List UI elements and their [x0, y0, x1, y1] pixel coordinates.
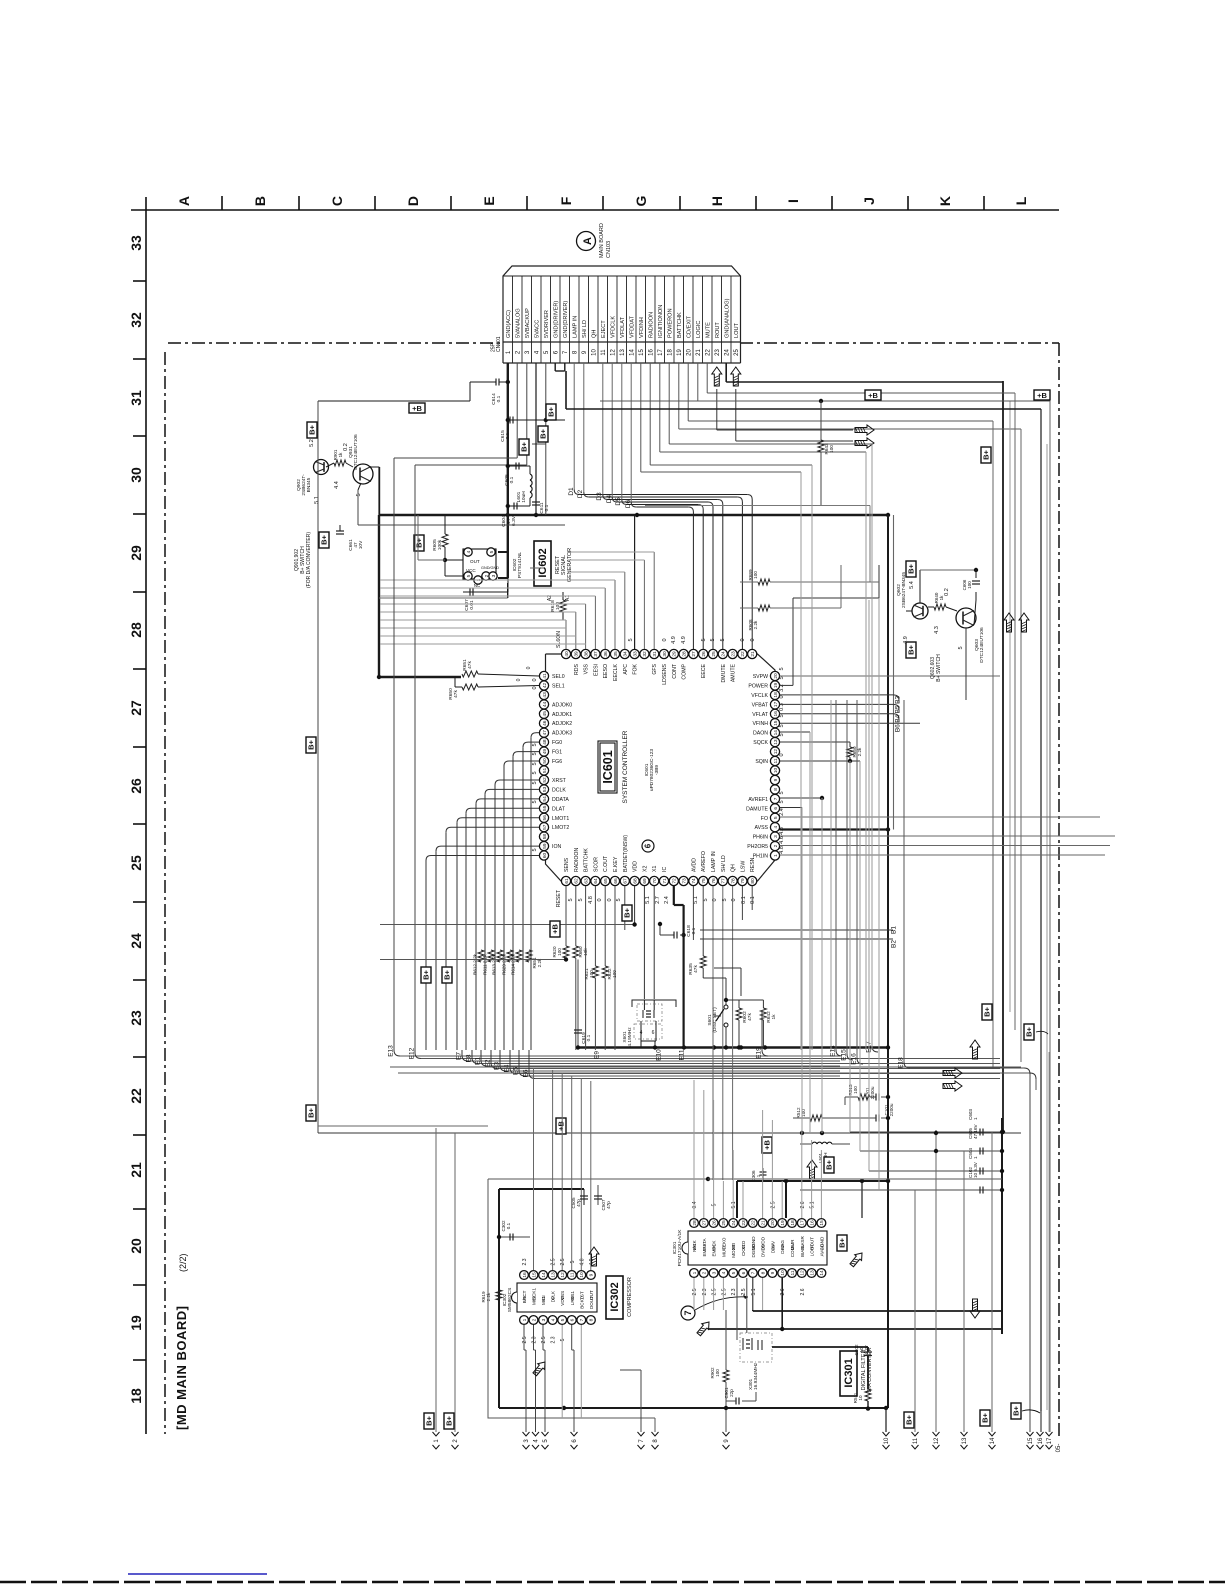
connector chevron 12 — [933, 1432, 940, 1436]
board boundary dash-dot left — [164, 352, 166, 1434]
arrows right mid — [943, 1068, 962, 1078]
svg-text:6: 6 — [741, 1271, 747, 1274]
svg-text:5: 5 — [532, 771, 538, 774]
wire right chevron risers — [885, 1408, 887, 1432]
IC602 pin 5 — [487, 548, 495, 556]
svg-text:2.5: 2.5 — [741, 1288, 747, 1295]
svg-text:B+ SWITCH: B+ SWITCH — [936, 654, 942, 682]
svg-text:DDATA: DDATA — [552, 797, 569, 803]
svg-text:10 6.3V: 10 6.3V — [973, 1161, 978, 1178]
wire left vertical E13 E12 — [393, 458, 395, 1050]
svg-text:B+: B+ — [307, 739, 316, 749]
svg-text:0.1: 0.1 — [509, 476, 515, 483]
svg-text:1k: 1k — [338, 452, 343, 458]
svg-text:7: 7 — [579, 1318, 585, 1321]
svg-text:15: 15 — [639, 349, 645, 356]
IC601 bottom pins — [561, 876, 570, 885]
svg-text:20: 20 — [770, 1220, 776, 1226]
svg-text:16: 16 — [773, 711, 779, 717]
svg-text:13: 13 — [620, 349, 626, 356]
connector chevron 2 — [452, 1432, 459, 1436]
svg-text:9: 9 — [589, 1273, 595, 1276]
crystal X301 — [736, 1278, 738, 1340]
wire net E8 — [472, 1058, 478, 1064]
svg-text:B1: B1 — [891, 926, 898, 934]
wire left pin 53 — [490, 788, 539, 790]
svg-text:100: 100 — [555, 602, 561, 610]
svg-text:8: 8 — [589, 1318, 595, 1321]
svg-text:56: 56 — [542, 815, 548, 821]
resistor R608 — [758, 605, 770, 611]
svg-text:4: 4 — [721, 1271, 727, 1274]
svg-text:7: 7 — [751, 1271, 757, 1274]
svg-text:47k: 47k — [747, 1013, 753, 1021]
IC301 ref circle 7 — [681, 1306, 695, 1320]
svg-text:15: 15 — [1028, 1437, 1034, 1444]
svg-text:36: 36 — [603, 651, 609, 657]
connector chevron 14 — [989, 1432, 996, 1436]
svg-text:31: 31 — [128, 390, 144, 406]
svg-text:QH: QH — [592, 330, 598, 338]
wire extra feed rows — [380, 627, 566, 629]
wire GND driver join — [554, 363, 556, 371]
svg-text:0: 0 — [750, 638, 756, 641]
svg-text:FO: FO — [761, 816, 768, 822]
switch S601 — [703, 977, 726, 979]
wire gray 401 — [600, 400, 1050, 402]
svg-text:11: 11 — [570, 1272, 576, 1277]
svg-text:0: 0 — [532, 678, 538, 681]
svg-text:RCK: RCK — [692, 1239, 697, 1250]
svg-text:67: 67 — [623, 878, 629, 884]
wire left pin 50 — [509, 760, 539, 762]
svg-text:10V: 10V — [358, 540, 364, 549]
wire SQIN — [780, 760, 860, 762]
svg-text:B+: B+ — [425, 1415, 434, 1425]
capacitor C618 — [660, 934, 674, 936]
svg-text:5VBACKUP: 5VBACKUP — [525, 308, 531, 338]
svg-text:50: 50 — [542, 758, 548, 764]
svg-text:6.3V: 6.3V — [864, 1344, 869, 1354]
svg-text:47 16V: 47 16V — [973, 1124, 978, 1139]
connector chevron 17 — [1046, 1432, 1053, 1436]
svg-text:64: 64 — [593, 878, 599, 884]
wire net E14 — [835, 700, 837, 1050]
svg-text:E10: E10 — [656, 1049, 663, 1061]
svg-text:BN345: BN345 — [306, 477, 312, 492]
wire SQCK R650 — [780, 741, 850, 743]
svg-text:54: 54 — [542, 796, 548, 802]
svg-text:D5: D5 — [615, 497, 622, 506]
gray verticals mid right lower — [800, 472, 802, 1050]
svg-text:0.1: 0.1 — [750, 896, 756, 904]
capacitor C605 — [508, 465, 530, 467]
resistor R613 — [497, 950, 503, 962]
svg-text:DTC124EUT106: DTC124EUT106 — [353, 434, 359, 470]
svg-text:IC302: IC302 — [609, 1282, 621, 1311]
svg-text:13: 13 — [773, 739, 779, 745]
svg-text:FG0: FG0 — [552, 740, 562, 746]
wire LOUT to output arrow — [735, 389, 737, 441]
IC601 body outline — [546, 654, 776, 881]
svg-text:53: 53 — [542, 786, 548, 792]
capacitor C619 — [577, 960, 579, 1048]
svg-text:5.1: 5.1 — [810, 1201, 816, 1208]
svg-text:QH: QH — [731, 864, 737, 872]
svg-text:22: 22 — [706, 349, 712, 356]
svg-text:34: 34 — [623, 651, 629, 657]
svg-text:-3B9: -3B9 — [654, 765, 660, 775]
svg-text:47k: 47k — [453, 690, 459, 698]
svg-text:SL6ON: SL6ON — [556, 631, 562, 648]
svg-text:CLKO: CLKO — [721, 1237, 726, 1250]
wire net E16 — [856, 700, 858, 1058]
wire Q602 connections — [906, 610, 912, 612]
svg-text:100k: 100k — [437, 539, 443, 550]
svg-text:2.5: 2.5 — [551, 1258, 557, 1265]
svg-text:10: 10 — [773, 768, 779, 774]
svg-text:5: 5 — [578, 898, 584, 901]
svg-text:5: 5 — [532, 848, 538, 851]
svg-text:VFINH: VFINH — [752, 721, 768, 727]
wire left pin 60 — [431, 855, 539, 857]
svg-text:4.6: 4.6 — [779, 836, 785, 844]
wire net E18 — [903, 700, 905, 1062]
connector chevron 3 — [523, 1432, 530, 1436]
svg-text:0.01: 0.01 — [469, 600, 475, 610]
resistor R650b — [462, 684, 478, 690]
svg-text:CN103: CN103 — [606, 241, 612, 258]
svg-text:35: 35 — [613, 651, 619, 657]
svg-text:LOGIC: LOGIC — [696, 321, 702, 338]
wire net B3 — [780, 694, 893, 696]
capacitor C603 — [850, 1131, 1002, 1133]
svg-text:NC: NC — [474, 583, 480, 588]
wire IC302 top pin risers — [533, 1068, 535, 1270]
svg-text:5.1: 5.1 — [314, 496, 320, 504]
svg-text:5: 5 — [356, 493, 362, 496]
inductor L601 — [530, 474, 532, 480]
svg-text:17: 17 — [1047, 1437, 1053, 1444]
svg-text:5VDRIVER: 5VDRIVER — [544, 310, 550, 338]
svg-text:0: 0 — [597, 898, 603, 901]
IC301 bottom drops — [693, 1278, 695, 1310]
svg-text:IC301: IC301 — [843, 1358, 855, 1387]
node junction bus — [506, 513, 510, 517]
resistor R602 — [726, 999, 763, 1001]
svg-text:GFS: GFS — [652, 663, 658, 674]
svg-text:DMUTE: DMUTE — [721, 663, 727, 682]
svg-text:29: 29 — [672, 651, 678, 657]
svg-text:5: 5 — [701, 638, 707, 641]
svg-text:7: 7 — [773, 797, 779, 800]
svg-text:0: 0 — [779, 695, 785, 698]
svg-text:E16: E16 — [851, 1053, 858, 1065]
svg-text:100: 100 — [753, 571, 758, 579]
svg-text:28: 28 — [681, 651, 687, 657]
svg-text:PH6IN: PH6IN — [753, 835, 769, 841]
svg-text:6: 6 — [644, 843, 653, 848]
svg-text:10: 10 — [884, 1437, 890, 1444]
resistor R689 — [758, 579, 770, 585]
svg-text:2.2k: 2.2k — [857, 747, 862, 756]
svg-text:C.OUT: C.OUT — [603, 855, 609, 872]
svg-text:27: 27 — [128, 700, 144, 716]
svg-text:E.KEY: E.KEY — [613, 856, 619, 872]
svg-text:MAIN BOARD: MAIN BOARD — [599, 223, 605, 258]
wire net B5 — [780, 703, 893, 705]
svg-text:B6: B6 — [895, 724, 902, 732]
svg-text:11: 11 — [773, 758, 779, 763]
svg-text:D2: D2 — [577, 489, 584, 498]
svg-text:AVDD: AVDD — [691, 858, 697, 872]
svg-text:0.4: 0.4 — [692, 1201, 698, 1208]
svg-text:5: 5 — [779, 733, 785, 736]
svg-text:16: 16 — [1038, 1437, 1044, 1444]
svg-text:R611 2.2k: R611 2.2k — [483, 954, 488, 975]
svg-text:100: 100 — [715, 1369, 720, 1377]
wire left pin 48 — [528, 741, 539, 743]
svg-text:ADJOK1: ADJOK1 — [552, 712, 572, 718]
svg-text:23: 23 — [730, 651, 736, 657]
svg-text:80: 80 — [750, 878, 756, 884]
svg-text:7: 7 — [683, 1310, 693, 1315]
svg-text:2.2k: 2.2k — [753, 620, 758, 629]
svg-text:25: 25 — [711, 651, 717, 657]
svg-text:B+: B+ — [825, 1159, 834, 1169]
connector chevron 10 — [883, 1432, 890, 1436]
capacitor C614 — [506, 380, 510, 384]
wire net E13 — [394, 1050, 400, 1056]
svg-text:8: 8 — [760, 1271, 766, 1274]
svg-text:12: 12 — [773, 749, 779, 755]
resistor R605 — [444, 515, 446, 534]
svg-text:100: 100 — [589, 970, 594, 978]
svg-text:5.4: 5.4 — [909, 581, 915, 589]
svg-text:17: 17 — [658, 349, 664, 356]
svg-text:VFLAT: VFLAT — [752, 712, 769, 718]
svg-text:E1: E1 — [475, 1057, 482, 1065]
wire right second vertical — [893, 515, 895, 830]
caps C201 C101 — [875, 1094, 877, 1101]
capacitor C306 — [762, 1168, 764, 1181]
svg-text:12: 12 — [560, 1272, 566, 1278]
svg-text:5.2: 5.2 — [309, 439, 315, 447]
svg-text:VSS: VSS — [560, 1291, 565, 1300]
wire left long vertical — [317, 401, 319, 1133]
grid row ticks — [133, 280, 146, 282]
svg-text:3: 3 — [491, 574, 497, 577]
wire chevron7 riser — [640, 1370, 642, 1432]
svg-text:OUT: OUT — [589, 1290, 594, 1300]
svg-text:05-: 05- — [1056, 1444, 1062, 1453]
svg-text:62: 62 — [574, 878, 580, 884]
wire dark box around IC302 — [498, 1189, 500, 1408]
svg-text:30: 30 — [128, 467, 144, 483]
svg-text:5: 5 — [570, 1260, 576, 1263]
svg-text:6: 6 — [570, 1318, 576, 1321]
board boundary dash-dot right — [1058, 343, 1060, 1436]
svg-text:79: 79 — [740, 878, 746, 884]
svg-text:2.5: 2.5 — [712, 1288, 718, 1295]
resistor R643 — [820, 401, 822, 440]
svg-text:100: 100 — [557, 948, 562, 956]
svg-text:B+: B+ — [520, 441, 529, 451]
svg-text:FG1: FG1 — [552, 750, 562, 756]
svg-text:18: 18 — [773, 692, 779, 698]
svg-text:SEL0: SEL0 — [552, 674, 565, 680]
svg-text:17: 17 — [800, 1220, 806, 1226]
svg-text:EESI: EESI — [593, 664, 599, 676]
svg-text:LMOT1: LMOT1 — [552, 816, 569, 822]
svg-text:B+: B+ — [307, 1107, 316, 1117]
svg-text:5: 5 — [703, 898, 709, 901]
svg-text:+B: +B — [868, 391, 878, 400]
svg-text:26: 26 — [711, 1220, 717, 1226]
shielded wire arrows pins 23 25 — [712, 367, 722, 386]
svg-text:4.8: 4.8 — [588, 896, 594, 904]
svg-text:47: 47 — [542, 730, 548, 736]
svg-text:AGND: AGND — [819, 1236, 824, 1250]
wire net E17 — [871, 700, 873, 1046]
svg-text:E7: E7 — [456, 1052, 463, 1060]
svg-text:41: 41 — [542, 673, 548, 679]
capacitor C505 — [860, 1150, 1002, 1152]
svg-text:2.6: 2.6 — [800, 1201, 806, 1208]
resistor R621 — [592, 966, 598, 978]
svg-text:48: 48 — [542, 739, 548, 745]
IC301 bottom pins — [690, 1269, 699, 1278]
capacitor C615 — [506, 418, 510, 422]
connector chevron 13 — [961, 1432, 968, 1436]
svg-text:5: 5 — [532, 800, 538, 803]
svg-text:6: 6 — [652, 1030, 655, 1036]
svg-text:B+: B+ — [905, 1414, 914, 1424]
svg-text:51: 51 — [542, 768, 548, 774]
svg-text:5: 5 — [779, 676, 785, 679]
svg-text:47p: 47p — [606, 1201, 611, 1209]
wire left pin 56 — [462, 817, 539, 819]
wire arrows to B+ right — [1036, 1031, 1048, 1034]
wire gray 505 — [645, 505, 870, 507]
svg-text:AMUTE: AMUTE — [731, 663, 737, 682]
IC302 body — [517, 1283, 597, 1312]
resistor R629 — [507, 950, 513, 962]
board boundary dash-dot top-right — [740, 342, 1059, 344]
wire bottom thick bus GND — [578, 1046, 888, 1048]
svg-text:24: 24 — [721, 651, 727, 657]
svg-text:11: 11 — [601, 349, 607, 356]
resistor R635 zig — [700, 956, 706, 968]
svg-text:74: 74 — [691, 878, 697, 884]
svg-text:25: 25 — [721, 1220, 727, 1226]
svg-text:24: 24 — [725, 349, 731, 356]
transistor Q931 — [353, 464, 373, 484]
svg-text:12: 12 — [800, 1270, 806, 1276]
connector chevron 1 — [433, 1432, 440, 1436]
svg-text:VFDLAT: VFDLAT — [620, 316, 626, 338]
svg-text:GND(ACC): GND(ACC) — [506, 310, 512, 338]
svg-text:0: 0 — [740, 638, 746, 641]
svg-text:22p: 22p — [729, 1389, 734, 1397]
svg-text:SYSTEM CONTROLLER: SYSTEM CONTROLLER — [622, 730, 629, 803]
svg-text:BATDET(INSW): BATDET(INSW) — [623, 835, 629, 872]
IC302 bottom pins — [520, 1316, 529, 1325]
svg-text:GND(ANALOG): GND(ANALOG) — [725, 298, 731, 338]
svg-text:E3: E3 — [494, 1062, 501, 1070]
svg-text:G: G — [633, 195, 649, 206]
svg-text:IC602: IC602 — [537, 548, 549, 577]
svg-text:2.5: 2.5 — [560, 1258, 566, 1265]
svg-text:59: 59 — [542, 843, 548, 849]
wire net D5 — [621, 363, 623, 500]
connector chevron 8 — [652, 1432, 659, 1436]
svg-text:16: 16 — [649, 349, 655, 356]
svg-text:4.8: 4.8 — [779, 846, 785, 854]
svg-text:4.9: 4.9 — [671, 636, 677, 644]
svg-text:12: 12 — [611, 349, 617, 356]
svg-text:43: 43 — [542, 692, 548, 698]
svg-text:27: 27 — [691, 651, 697, 657]
svg-text:+B: +B — [763, 1140, 772, 1150]
down arrow hatch near IC301 — [970, 1040, 980, 1059]
wire B+ bus left drop — [378, 515, 380, 677]
svg-text:1: 1 — [522, 1318, 528, 1321]
svg-text:21: 21 — [760, 1220, 766, 1226]
svg-text:DCLK: DCLK — [552, 787, 566, 793]
svg-text:57: 57 — [542, 824, 548, 830]
svg-text:B+: B+ — [547, 406, 556, 416]
wire dark bus at IC301 top — [737, 1180, 888, 1182]
resistor R620 — [563, 946, 569, 958]
svg-text:6: 6 — [773, 807, 779, 810]
svg-text:5.1: 5.1 — [731, 1201, 737, 1208]
svg-text:PCM1710U-A/1K: PCM1710U-A/1K — [677, 1229, 683, 1267]
svg-text:J: J — [861, 197, 877, 205]
IC601 left pins — [539, 671, 548, 680]
svg-text:2200u: 2200u — [889, 1103, 894, 1116]
IC602 pin 4 — [464, 548, 472, 556]
svg-text:(DISC SET): (DISC SET) — [712, 1007, 718, 1033]
svg-text:1k: 1k — [771, 1014, 777, 1020]
svg-text:2.5: 2.5 — [522, 1336, 528, 1343]
svg-text:63: 63 — [583, 878, 589, 884]
wire pin1 to IC602 — [498, 577, 508, 579]
svg-text:26: 26 — [128, 778, 144, 794]
svg-text:11: 11 — [790, 1270, 796, 1275]
wire XRST underline pin — [530, 567, 544, 569]
wire top pin verticals IC601 — [565, 620, 567, 649]
svg-text:30: 30 — [662, 651, 668, 657]
svg-text:40: 40 — [564, 651, 570, 657]
svg-text:A: A — [176, 196, 192, 206]
svg-text:1: 1 — [756, 1174, 761, 1177]
svg-text:0.1: 0.1 — [496, 395, 502, 402]
svg-text:F: F — [558, 196, 574, 205]
svg-text:22: 22 — [128, 1088, 144, 1104]
svg-text:100: 100 — [829, 445, 834, 453]
svg-text:31: 31 — [652, 651, 658, 657]
svg-text:CONT: CONT — [672, 663, 678, 679]
svg-text:4.4: 4.4 — [334, 481, 340, 489]
wire net E2 — [491, 1063, 497, 1069]
wire IC302 pin5 pin7 drops — [561, 1325, 563, 1418]
svg-text:2.5: 2.5 — [721, 1288, 727, 1295]
svg-text:+B: +B — [1037, 391, 1047, 400]
svg-text:10: 10 — [858, 1395, 863, 1401]
svg-text:L: L — [1013, 196, 1029, 205]
svg-text:AVREF1: AVREF1 — [748, 797, 768, 803]
